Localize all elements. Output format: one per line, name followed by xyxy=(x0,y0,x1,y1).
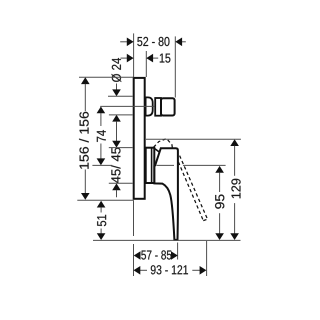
O24 upper arrow (points down to cartridge top) xyxy=(116,84,118,91)
dimension 52-80 left tail arrow xyxy=(120,41,128,43)
handle raised position: dashed lever left edge xyxy=(178,162,203,221)
dimension text 51 rotated xyxy=(97,215,106,226)
dimension 57-85 right arrow xyxy=(171,251,178,260)
reference line: handle top for 129 xyxy=(146,138,241,140)
extension line: plate front (top) xyxy=(145,51,147,77)
reference line: left mid 45/45 first xyxy=(109,147,133,149)
extension line: wall plane bottom lower part xyxy=(133,244,135,276)
cartridge ring xyxy=(155,98,161,116)
dimension text 52-80 xyxy=(137,37,169,46)
handle raised position: dashed lever end cap xyxy=(203,219,207,220)
reference line: cartridge bottom xyxy=(109,114,133,116)
dimension 51 lower arrow xyxy=(100,229,102,235)
dimension 15 left tail arrow xyxy=(121,57,129,59)
extension line: cartridge tip (top) xyxy=(174,36,176,97)
dimension text 45/45 rotated xyxy=(111,148,121,184)
dimension 57-85 left arrow xyxy=(134,251,141,260)
cartridge end block xyxy=(161,98,175,115)
extension line: dashed lever reach xyxy=(206,241,208,276)
extension line: lever tip xyxy=(177,243,179,260)
dimension 52-80 right tail arrow xyxy=(181,41,186,43)
dimension text 95 rotated xyxy=(215,194,224,208)
dimension 74 upper arrow xyxy=(97,107,106,114)
dimension 95 upper arrow xyxy=(215,166,224,173)
cartridge dome at plate front xyxy=(146,97,153,115)
handle raised position: dashed head outline xyxy=(154,139,173,148)
dimension 15 right tail arrow xyxy=(152,57,158,59)
reference line: cartridge centerline xyxy=(100,105,155,107)
handle neck wedge line xyxy=(155,149,161,153)
dimension 129 lower arrow xyxy=(234,203,236,234)
dimension 51 upper arrow xyxy=(97,201,106,208)
dimension text 156/156 rotated xyxy=(79,112,89,169)
dimension text 74 rotated xyxy=(97,130,106,142)
reference line: bottom baseline xyxy=(93,239,241,241)
dimension text 57-85 xyxy=(141,250,171,259)
dimension 129 upper arrow xyxy=(230,139,239,146)
dimension 74 lower arrow xyxy=(100,144,102,160)
reference line: plate bottom left xyxy=(77,199,133,201)
dimension text 93-121 xyxy=(151,265,188,274)
dimension text 15 xyxy=(160,54,171,63)
dimension 156/156 upper arrow xyxy=(81,77,90,84)
reference line: left lower 45/45 second xyxy=(109,182,133,184)
extension line: wall plane (top) xyxy=(133,33,135,77)
reference line: pivot line left segment xyxy=(92,164,112,166)
handle base block (rosette) xyxy=(146,148,155,183)
handle head and lever (closed position) xyxy=(154,148,178,240)
O24 lower arrow (points up to cartridge bottom) + stem xyxy=(112,115,121,122)
extension line: wall plane bottom upper part xyxy=(133,200,135,236)
reference line: cartridge top xyxy=(108,95,133,97)
reference line: plate top left xyxy=(79,76,134,78)
dimension text O24 rotated xyxy=(112,58,122,82)
45/45 lower arrow (up) + stem xyxy=(112,183,121,190)
wall plate (escutcheon, side view) xyxy=(134,78,145,199)
handle raised position: dashed lever right edge xyxy=(180,156,208,220)
dimension 93-121 right arrow xyxy=(192,269,200,271)
dimension text 129 rotated xyxy=(231,179,240,198)
dimension 95 lower arrow xyxy=(219,213,221,234)
rosette inner ring line xyxy=(151,148,153,182)
dimension 156/156 lower arrow xyxy=(84,170,86,194)
dimension 93-121 left arrow xyxy=(140,269,147,271)
reference line: pivot line right segment xyxy=(157,164,175,166)
45/45 upper arrow (down) xyxy=(112,141,121,148)
